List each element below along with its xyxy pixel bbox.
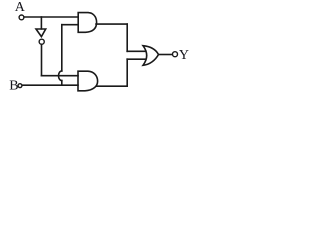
AND gate U2 (bottom) (78, 71, 98, 91)
output terminal Y (173, 52, 178, 57)
wire down to OR top input (126, 24, 128, 51)
wire into OR gate top input (127, 50, 146, 52)
node junction on wire A (40, 17, 42, 29)
input terminal B (18, 84, 22, 88)
wire into OR gate bottom input (127, 58, 146, 60)
svg-text:B: B (9, 79, 18, 94)
wire top AND output (96, 23, 127, 25)
wire inverter output down (41, 45, 43, 76)
input terminal A (19, 15, 24, 20)
wire up to OR bottom input (126, 59, 128, 86)
OR gate U3 (143, 46, 159, 66)
inverter (NOT gate) triangle (36, 29, 46, 37)
wire A horizontal to top AND gate (24, 16, 78, 18)
wire top AND gate lower input (62, 24, 78, 26)
wire B horizontal to bottom AND gate lower input (23, 84, 78, 86)
svg-text:Y: Y (179, 48, 189, 63)
svg-text:A: A (15, 0, 26, 15)
wire OR output (159, 54, 173, 56)
AND gate U1 (top) (78, 13, 96, 33)
inverter bubble (39, 39, 44, 44)
wire bottom AND output (97, 85, 128, 87)
wire A' to bottom AND gate upper input (42, 75, 79, 77)
wire hop over A' wire (no connection) (59, 71, 62, 81)
wire vertical from top AND input down (61, 25, 63, 71)
wire vertical below hop to B wire junction (61, 81, 63, 86)
